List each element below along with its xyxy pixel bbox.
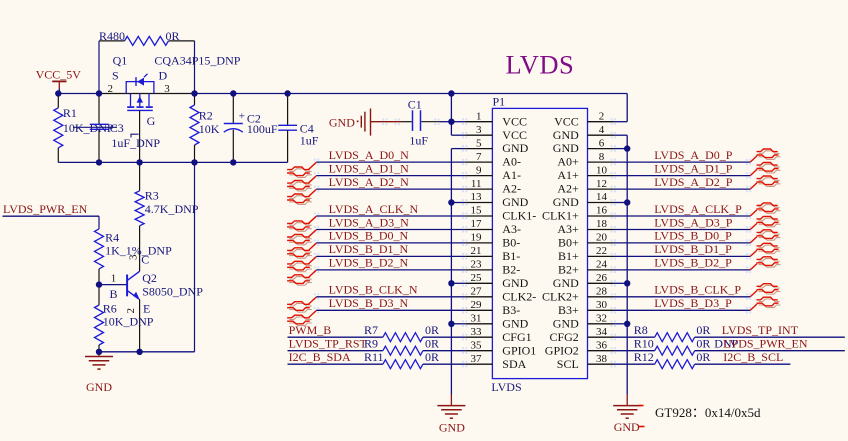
svg-text:R11: R11 xyxy=(364,350,384,364)
svg-text:A2-: A2- xyxy=(502,182,521,196)
svg-text:4.7K_DNP: 4.7K_DNP xyxy=(145,202,199,216)
svg-text:17: 17 xyxy=(471,218,483,230)
svg-text:LVDS: LVDS xyxy=(506,50,575,80)
svg-text:Q1: Q1 xyxy=(113,53,128,67)
svg-text:LVDS_PWR_EN: LVDS_PWR_EN xyxy=(3,202,88,216)
svg-text:GND: GND xyxy=(553,141,579,155)
svg-text:0R: 0R xyxy=(425,337,439,351)
svg-text:1: 1 xyxy=(476,110,482,122)
svg-text:A1-: A1- xyxy=(502,168,521,182)
svg-text:SCL: SCL xyxy=(557,357,579,371)
svg-text:A3-: A3- xyxy=(502,222,521,236)
svg-text:0R: 0R xyxy=(696,337,710,351)
svg-text:A3+: A3+ xyxy=(557,222,579,236)
svg-text:I2C_B_SDA: I2C_B_SDA xyxy=(289,350,351,364)
svg-text:33: 33 xyxy=(471,326,483,338)
svg-text:26: 26 xyxy=(596,272,608,284)
svg-text:LVDS_PWR_EN: LVDS_PWR_EN xyxy=(723,337,808,351)
svg-text:GPIO2: GPIO2 xyxy=(545,343,579,357)
svg-text:32: 32 xyxy=(596,313,607,325)
svg-text:CLK2-: CLK2- xyxy=(502,289,536,303)
svg-text:LVDS_A_D1_P: LVDS_A_D1_P xyxy=(654,161,733,175)
svg-text:B1-: B1- xyxy=(502,249,520,263)
svg-text:R8: R8 xyxy=(634,323,648,337)
svg-text:10K_DNP: 10K_DNP xyxy=(103,315,154,329)
svg-text:LVDS: LVDS xyxy=(491,380,521,394)
svg-text:23: 23 xyxy=(471,259,483,271)
svg-text:VCC: VCC xyxy=(502,114,527,128)
svg-text:1uF: 1uF xyxy=(300,134,319,148)
svg-text:24: 24 xyxy=(596,259,608,271)
svg-text:LVDS_A_CLK_P: LVDS_A_CLK_P xyxy=(654,202,742,216)
svg-text:22: 22 xyxy=(596,245,607,257)
svg-text:36: 36 xyxy=(596,339,608,351)
svg-text:P1: P1 xyxy=(493,95,506,109)
svg-text:B3+: B3+ xyxy=(558,303,579,317)
svg-text:VCC_5V: VCC_5V xyxy=(36,68,82,82)
svg-text:LVDS_B_D2_P: LVDS_B_D2_P xyxy=(654,256,732,270)
svg-text:16: 16 xyxy=(596,205,608,217)
svg-text:I2C_B_SCL: I2C_B_SCL xyxy=(723,350,783,364)
svg-text:B3-: B3- xyxy=(502,303,520,317)
svg-text:100uF: 100uF xyxy=(247,122,278,136)
svg-text:LVDS_TP_INT: LVDS_TP_INT xyxy=(722,323,799,337)
svg-text:R4: R4 xyxy=(105,230,119,244)
svg-text:20: 20 xyxy=(596,232,608,244)
svg-text:LVDS_B_D0_N: LVDS_B_D0_N xyxy=(329,229,409,243)
svg-text:7: 7 xyxy=(476,151,482,163)
svg-text:34: 34 xyxy=(596,326,608,338)
svg-text:+: + xyxy=(239,110,245,122)
svg-text:3: 3 xyxy=(476,124,482,136)
svg-text:11: 11 xyxy=(471,178,482,190)
svg-text:GT928：0x14/0x5d: GT928：0x14/0x5d xyxy=(655,405,761,420)
svg-text:R1: R1 xyxy=(63,106,77,120)
svg-text:LVDS_B_CLK_N: LVDS_B_CLK_N xyxy=(329,283,418,297)
svg-text:19: 19 xyxy=(471,232,483,244)
svg-text:LVDS_B_D2_N: LVDS_B_D2_N xyxy=(329,256,409,270)
svg-text:LVDS_A_D2_N: LVDS_A_D2_N xyxy=(329,175,410,189)
svg-text:R12: R12 xyxy=(634,350,654,364)
svg-text:CLK2+: CLK2+ xyxy=(542,289,579,303)
svg-text:R6: R6 xyxy=(103,301,117,315)
svg-text:R7: R7 xyxy=(364,323,378,337)
svg-text:GND: GND xyxy=(553,128,579,142)
svg-text:R480: R480 xyxy=(99,29,125,43)
svg-text:LVDS_A_D1_N: LVDS_A_D1_N xyxy=(329,161,410,175)
svg-text:GND: GND xyxy=(553,195,579,209)
svg-text:LVDS_A_D3_N: LVDS_A_D3_N xyxy=(329,215,410,229)
svg-text:GND: GND xyxy=(553,316,579,330)
svg-text:LVDS_A_D2_P: LVDS_A_D2_P xyxy=(654,175,733,189)
svg-text:B2-: B2- xyxy=(502,263,520,277)
svg-text:PWM_B: PWM_B xyxy=(289,323,332,337)
svg-text:6: 6 xyxy=(599,137,605,149)
svg-text:15: 15 xyxy=(471,205,483,217)
svg-text:CFG2: CFG2 xyxy=(549,330,578,344)
svg-text:B2+: B2+ xyxy=(558,263,579,277)
svg-text:SDA: SDA xyxy=(502,357,526,371)
svg-text:18: 18 xyxy=(596,218,608,230)
svg-text:LVDS_A_D0_P: LVDS_A_D0_P xyxy=(654,148,733,162)
svg-text:GND: GND xyxy=(329,116,355,130)
svg-text:C: C xyxy=(141,252,149,266)
svg-text:31: 31 xyxy=(471,313,482,325)
svg-text:GND: GND xyxy=(86,380,112,394)
svg-text:LVDS_B_D1_N: LVDS_B_D1_N xyxy=(329,242,409,256)
svg-text:R2: R2 xyxy=(199,108,213,122)
svg-text:CLK1+: CLK1+ xyxy=(542,209,579,223)
svg-text:21: 21 xyxy=(471,245,482,257)
svg-text:2: 2 xyxy=(108,83,114,95)
svg-text:VCC: VCC xyxy=(502,128,527,142)
svg-text:LVDS_B_D3_P: LVDS_B_D3_P xyxy=(654,296,732,310)
svg-text:B0+: B0+ xyxy=(558,236,579,250)
svg-text:13: 13 xyxy=(471,191,483,203)
svg-text:GND: GND xyxy=(614,420,640,434)
svg-text:D: D xyxy=(159,68,168,82)
svg-text:3: 3 xyxy=(164,83,170,95)
svg-text:CLK1-: CLK1- xyxy=(502,209,536,223)
svg-text:0R: 0R xyxy=(696,323,710,337)
svg-text:LVDS_A_D3_P: LVDS_A_D3_P xyxy=(654,215,733,229)
svg-text:25: 25 xyxy=(471,272,483,284)
svg-text:A0-: A0- xyxy=(502,155,521,169)
svg-text:0R: 0R xyxy=(696,350,710,364)
svg-text:14: 14 xyxy=(596,191,608,203)
svg-text:4: 4 xyxy=(599,124,605,136)
svg-text:LVDS_TP_RST: LVDS_TP_RST xyxy=(289,337,368,351)
svg-text:C3: C3 xyxy=(110,121,124,135)
svg-text:GND: GND xyxy=(502,316,528,330)
svg-text:28: 28 xyxy=(596,286,608,298)
svg-text:R10: R10 xyxy=(634,337,654,351)
svg-text:8: 8 xyxy=(599,151,605,163)
svg-text:38: 38 xyxy=(596,353,608,365)
svg-text:Q2: Q2 xyxy=(142,271,157,285)
svg-text:LVDS_A_CLK_N: LVDS_A_CLK_N xyxy=(329,202,419,216)
svg-text:30: 30 xyxy=(596,299,608,311)
svg-text:1uF: 1uF xyxy=(409,134,428,148)
svg-text:R3: R3 xyxy=(145,189,159,203)
svg-text:29: 29 xyxy=(471,299,483,311)
svg-text:CQA34P15_DNP: CQA34P15_DNP xyxy=(154,53,240,67)
svg-text:1: 1 xyxy=(111,273,117,285)
svg-text:10K: 10K xyxy=(199,122,220,136)
svg-text:3: 3 xyxy=(128,254,140,260)
svg-text:LVDS_B_D3_N: LVDS_B_D3_N xyxy=(329,296,409,310)
svg-text:G: G xyxy=(147,114,156,128)
svg-text:LVDS_B_D1_P: LVDS_B_D1_P xyxy=(654,242,732,256)
svg-text:GND: GND xyxy=(439,421,465,435)
svg-text:VCC: VCC xyxy=(554,114,579,128)
svg-text:GND: GND xyxy=(502,195,528,209)
svg-text:10: 10 xyxy=(596,164,608,176)
svg-text:E: E xyxy=(143,301,150,315)
svg-text:27: 27 xyxy=(471,286,483,298)
svg-text:LVDS_B_D0_P: LVDS_B_D0_P xyxy=(654,229,732,243)
svg-text:LVDS_B_CLK_P: LVDS_B_CLK_P xyxy=(654,283,741,297)
svg-text:C1: C1 xyxy=(408,97,422,111)
svg-text:B0-: B0- xyxy=(502,236,520,250)
svg-text:R9: R9 xyxy=(364,337,378,351)
svg-text:CFG1: CFG1 xyxy=(502,330,531,344)
svg-text:GPIO1: GPIO1 xyxy=(502,343,536,357)
svg-text:1uF_DNP: 1uF_DNP xyxy=(111,136,160,150)
svg-text:0R: 0R xyxy=(166,29,180,43)
svg-text:A1+: A1+ xyxy=(557,168,579,182)
svg-text:0R: 0R xyxy=(425,350,439,364)
svg-text:A0+: A0+ xyxy=(557,155,579,169)
svg-text:9: 9 xyxy=(476,164,482,176)
svg-text:A2+: A2+ xyxy=(557,182,579,196)
svg-text:35: 35 xyxy=(471,339,483,351)
svg-text:B: B xyxy=(110,287,118,301)
svg-text:S: S xyxy=(112,68,119,82)
svg-text:0R: 0R xyxy=(425,323,439,337)
svg-text:37: 37 xyxy=(471,353,483,365)
svg-text:12: 12 xyxy=(596,178,607,190)
svg-text:GND: GND xyxy=(553,276,579,290)
svg-text:5: 5 xyxy=(476,137,482,149)
svg-text:GND: GND xyxy=(502,276,528,290)
svg-text:LVDS_A_D0_N: LVDS_A_D0_N xyxy=(329,148,410,162)
svg-text:2: 2 xyxy=(125,308,137,314)
svg-text:GND: GND xyxy=(502,141,528,155)
svg-text:2: 2 xyxy=(599,110,605,122)
svg-text:B1+: B1+ xyxy=(558,249,579,263)
